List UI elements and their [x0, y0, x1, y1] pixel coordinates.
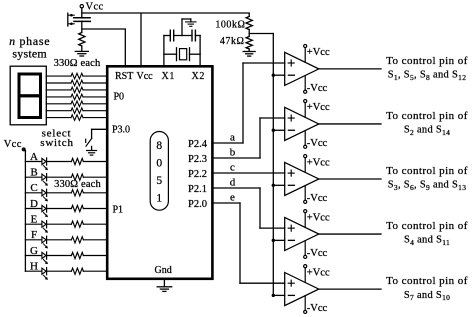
svg-text:1: 1: [156, 193, 162, 205]
svg-text:P2.3: P2.3: [188, 154, 207, 165]
svg-text:-Vcc: -Vcc: [307, 83, 328, 94]
svg-text:RST: RST: [115, 71, 133, 82]
svg-text:Gnd: Gnd: [155, 265, 172, 276]
svg-text:P2.1: P2.1: [188, 184, 207, 195]
svg-text:c: c: [230, 162, 235, 174]
svg-text:S3, S6, S9 and S13: S3, S6, S9 and S13: [388, 180, 467, 192]
svg-text:S7 and S10: S7 and S10: [404, 290, 450, 302]
svg-text:To control pin of: To control pin of: [386, 275, 468, 287]
svg-text:+Vcc: +Vcc: [307, 102, 330, 113]
svg-text:switch: switch: [40, 137, 74, 149]
svg-text:X1: X1: [162, 71, 175, 82]
svg-text:E: E: [31, 214, 38, 226]
svg-text:Vcc: Vcc: [137, 71, 154, 82]
svg-text:-Vcc: -Vcc: [307, 193, 328, 204]
svg-text:Vcc: Vcc: [4, 139, 22, 150]
svg-text:+Vcc: +Vcc: [307, 47, 330, 58]
svg-text:system: system: [12, 47, 47, 61]
svg-text:H: H: [30, 261, 38, 273]
svg-text:P2.0: P2.0: [188, 199, 207, 210]
svg-text:a: a: [230, 132, 235, 144]
svg-text:X2: X2: [192, 71, 205, 82]
svg-text:+Vcc: +Vcc: [307, 267, 330, 278]
svg-text:330Ω each: 330Ω each: [54, 58, 101, 69]
svg-text:-Vcc: -Vcc: [307, 248, 328, 259]
svg-text:Vcc: Vcc: [86, 2, 104, 13]
svg-text:-Vcc: -Vcc: [307, 303, 328, 314]
svg-text:100kΩ: 100kΩ: [215, 19, 245, 30]
svg-text:F: F: [31, 229, 37, 241]
svg-text:S4 and S11: S4 and S11: [404, 235, 450, 247]
svg-text:S1, S5, S8 and S12: S1, S5, S8 and S12: [388, 70, 467, 82]
svg-text:P2.4: P2.4: [188, 139, 208, 150]
svg-text:b: b: [230, 147, 236, 159]
svg-text:d: d: [230, 177, 236, 189]
svg-text:S2 and S14: S2 and S14: [404, 125, 450, 137]
svg-text:330Ω each: 330Ω each: [54, 179, 101, 190]
svg-text:47kΩ: 47kΩ: [220, 36, 245, 47]
svg-text:To control pin of: To control pin of: [386, 110, 468, 122]
svg-text:P3.0: P3.0: [112, 125, 130, 136]
svg-text:+Vcc: +Vcc: [307, 157, 330, 168]
svg-text:e: e: [230, 192, 235, 204]
svg-text:To control pin of: To control pin of: [386, 165, 468, 177]
svg-text:-Vcc: -Vcc: [307, 138, 328, 149]
svg-text:D: D: [30, 198, 38, 210]
svg-text:0: 0: [156, 158, 162, 170]
svg-text:P0: P0: [114, 91, 125, 102]
svg-text:B: B: [30, 167, 37, 179]
svg-text:To control pin of: To control pin of: [386, 220, 468, 232]
svg-text:P1: P1: [113, 205, 124, 216]
svg-text:A: A: [30, 151, 38, 163]
svg-text:5: 5: [156, 175, 162, 187]
svg-text:C: C: [30, 182, 37, 194]
svg-text:+Vcc: +Vcc: [307, 212, 330, 223]
svg-text:G: G: [30, 245, 38, 257]
svg-text:8: 8: [156, 140, 162, 152]
svg-text:P2.2: P2.2: [188, 169, 207, 180]
svg-text:To control pin of: To control pin of: [386, 55, 468, 67]
